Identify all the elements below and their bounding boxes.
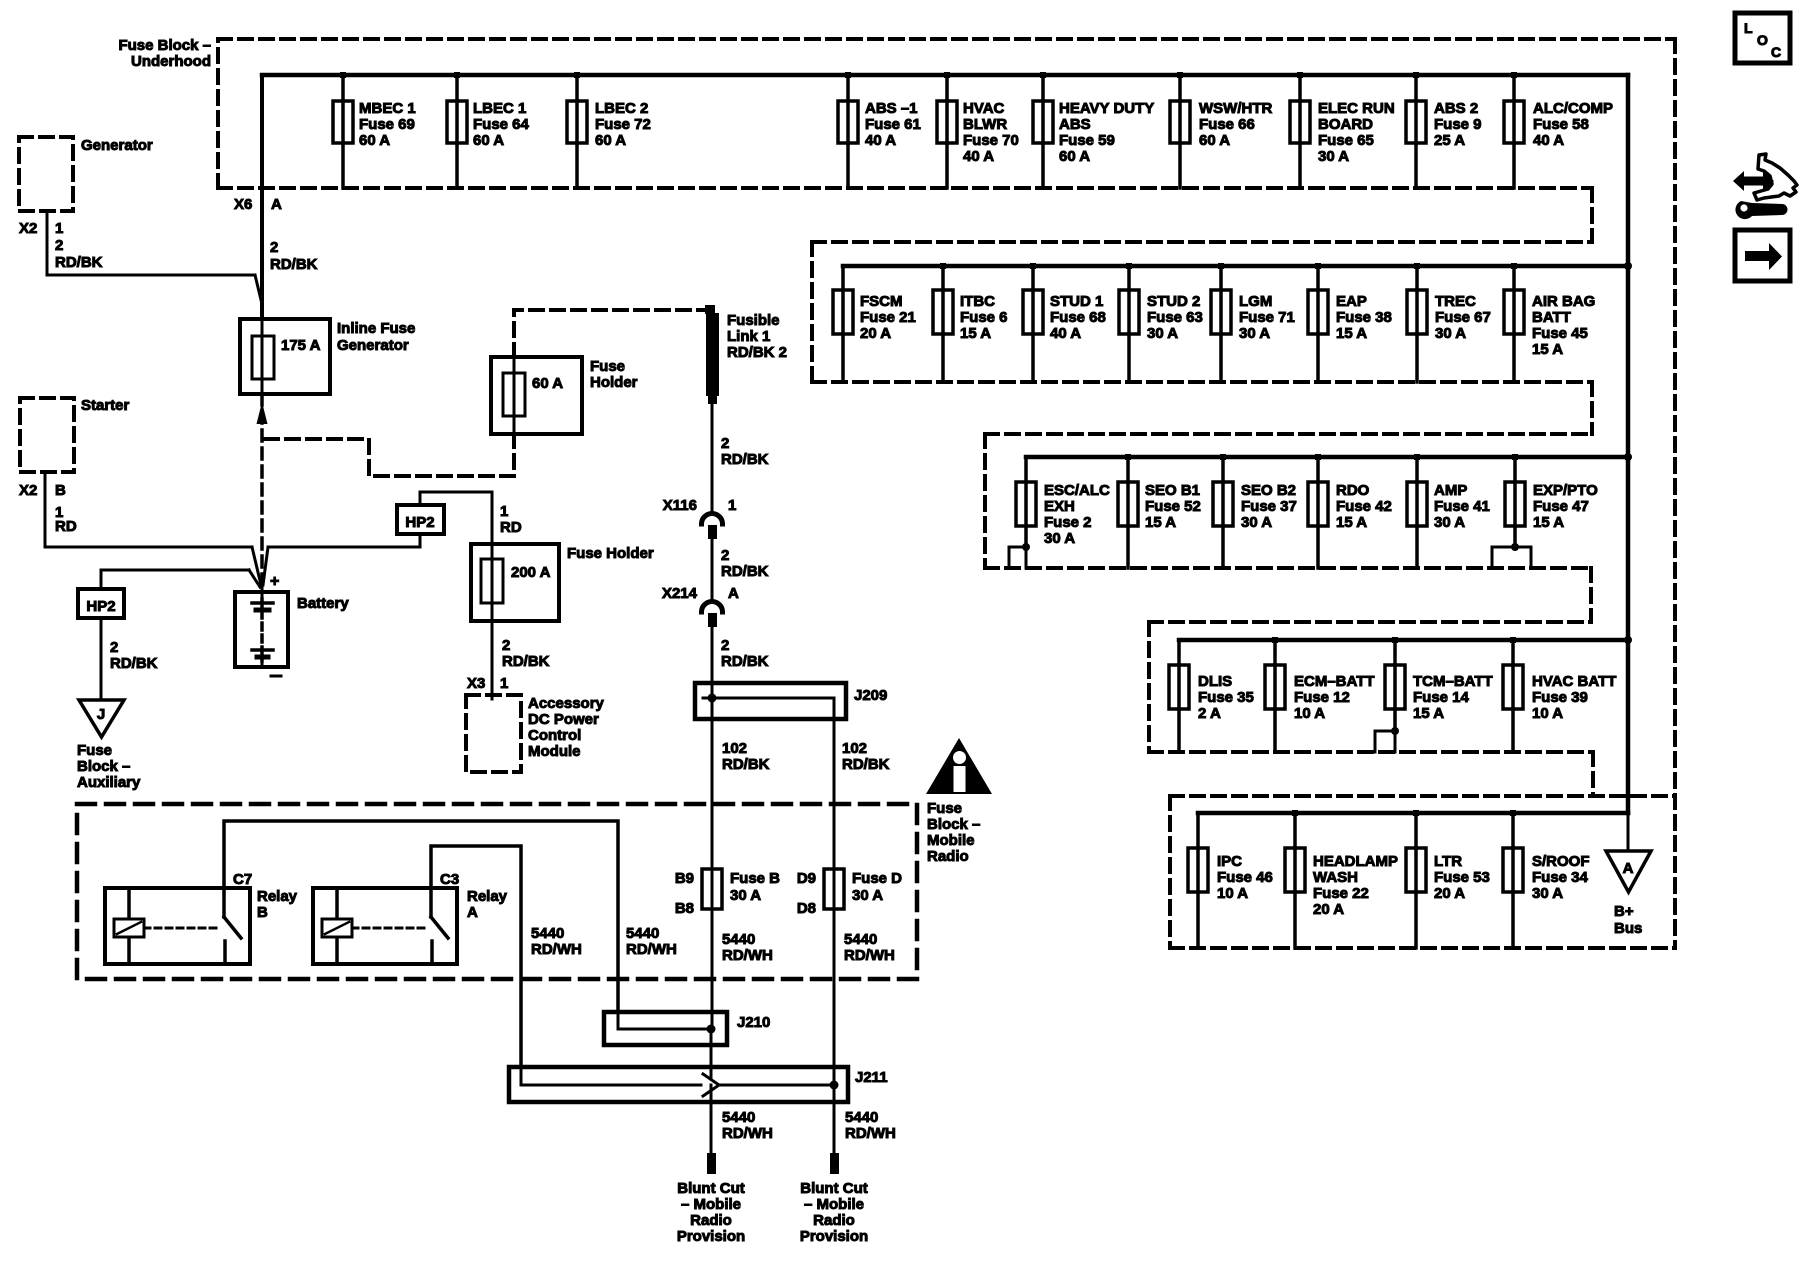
svg-text:J210: J210 bbox=[737, 1014, 770, 1031]
svg-text:Fuse D: Fuse D bbox=[852, 870, 902, 887]
svg-text:Mobile: Mobile bbox=[927, 832, 975, 849]
icon forward arrow box bbox=[1735, 230, 1790, 281]
svg-text:Radio: Radio bbox=[690, 1212, 732, 1229]
svg-text:20 A: 20 A bbox=[860, 325, 891, 342]
svg-text:Fuse 58: Fuse 58 bbox=[1533, 116, 1589, 133]
wire fuse D to J211 (5440 RD/WH) bbox=[833, 909, 836, 1085]
svg-text:30 A: 30 A bbox=[1147, 325, 1178, 342]
svg-text:BATT: BATT bbox=[1532, 309, 1571, 326]
svg-text:B9: B9 bbox=[675, 870, 694, 887]
svg-text:Link 1: Link 1 bbox=[727, 328, 770, 345]
svg-text:RD/WH: RD/WH bbox=[722, 1125, 773, 1142]
svg-text:15 A: 15 A bbox=[1336, 514, 1367, 531]
fuse HEAVY DUTY (ABS) bbox=[1033, 72, 1154, 188]
svg-text:Relay: Relay bbox=[467, 888, 508, 905]
wire label 5440 RD/WH (relay B output) bbox=[626, 925, 677, 958]
svg-text:LGM: LGM bbox=[1239, 293, 1272, 310]
svg-text:LBEC 1: LBEC 1 bbox=[473, 100, 526, 117]
svg-text:Fuse 63: Fuse 63 bbox=[1147, 309, 1203, 326]
svg-text:Module: Module bbox=[528, 743, 581, 760]
svg-text:MBEC 1: MBEC 1 bbox=[359, 100, 416, 117]
svg-text:Provision: Provision bbox=[800, 1228, 868, 1245]
label Inline Fuse Generator bbox=[337, 320, 415, 354]
wire relay A to J211 (5440 RD/WH) bbox=[431, 846, 521, 1067]
fuse ECM–BATT row4 bbox=[1265, 637, 1375, 752]
dashed wire inline fuse to battery with arrowhead bbox=[257, 394, 268, 661]
svg-text:O: O bbox=[1757, 32, 1768, 48]
svg-text:Fuse: Fuse bbox=[590, 358, 625, 375]
triangle connector J to fuse block auxiliary bbox=[79, 700, 124, 737]
svg-text:X2: X2 bbox=[19, 482, 37, 499]
svg-text:1: 1 bbox=[500, 503, 508, 520]
wire label 1 RD (starter) bbox=[55, 504, 77, 535]
svg-text:RD/BK: RD/BK bbox=[721, 451, 769, 468]
svg-text:EXH: EXH bbox=[1044, 498, 1075, 515]
svg-text:Fuse 47: Fuse 47 bbox=[1533, 498, 1589, 515]
starter dashed box bbox=[20, 398, 74, 472]
svg-text:Fuse 68: Fuse 68 bbox=[1050, 309, 1106, 326]
svg-text:ALC/COMP: ALC/COMP bbox=[1533, 100, 1613, 117]
svg-text:HP2: HP2 bbox=[86, 598, 115, 615]
wire HP2 right to battery bbox=[263, 534, 420, 585]
svg-text:AMP: AMP bbox=[1434, 482, 1467, 499]
fuse block underhood dashed boundary bbox=[218, 39, 1675, 948]
svg-text:Fuse 45: Fuse 45 bbox=[1532, 325, 1588, 342]
svg-text:Fuse 39: Fuse 39 bbox=[1532, 689, 1588, 706]
svg-text:ITBC: ITBC bbox=[960, 293, 995, 310]
junction jog below TCM-BATT fuse bbox=[1375, 727, 1399, 752]
svg-text:Fuse: Fuse bbox=[927, 800, 962, 817]
svg-text:Fuse 70: Fuse 70 bbox=[963, 132, 1019, 149]
wire fusible link to X116 bbox=[711, 404, 714, 512]
svg-text:RD/BK: RD/BK bbox=[55, 254, 103, 271]
wire J211 to left blunt cut (5440 RD/WH) bbox=[710, 1085, 713, 1153]
svg-text:Fuse 71: Fuse 71 bbox=[1239, 309, 1295, 326]
svg-text:WSW/HTR: WSW/HTR bbox=[1199, 100, 1272, 117]
svg-text:15 A: 15 A bbox=[960, 325, 991, 342]
node X2 pin 1 labels (generator) bbox=[19, 220, 63, 237]
wire relay B to J210 (5440 RD/WH) bbox=[224, 821, 618, 1012]
svg-text:Battery: Battery bbox=[297, 595, 349, 612]
svg-text:Blunt Cut: Blunt Cut bbox=[800, 1180, 867, 1197]
blunt cut terminal (right) bbox=[830, 1153, 839, 1174]
wire row2 bus bbox=[843, 264, 1628, 269]
svg-text:2: 2 bbox=[721, 435, 729, 452]
svg-text:Holder: Holder bbox=[590, 374, 638, 391]
fuse B 30 A (pins B9/B8) bbox=[675, 869, 780, 917]
warning triangle info symbol bbox=[926, 738, 992, 794]
wire X6-A feed (2 RD/BK) bbox=[260, 75, 264, 319]
svg-text:30 A: 30 A bbox=[1239, 325, 1270, 342]
fuse STUD 1 row2 bbox=[1023, 263, 1106, 382]
fusible link 1 (RD/BK 2) bbox=[705, 305, 719, 404]
svg-text:Fuse 53: Fuse 53 bbox=[1434, 869, 1490, 886]
fuse LGM row2 bbox=[1211, 263, 1295, 382]
fuse EAP row2 bbox=[1308, 263, 1392, 382]
svg-text:X214: X214 bbox=[662, 585, 698, 602]
svg-text:HEADLAMP: HEADLAMP bbox=[1313, 853, 1398, 870]
wire X3 to accessory module bbox=[491, 621, 494, 699]
svg-text:RD/WH: RD/WH bbox=[844, 947, 895, 964]
blunt cut terminal (left) bbox=[707, 1153, 716, 1174]
fuse LBEC 2 (Fuse 72) bbox=[567, 72, 651, 188]
wire label 5440 RD/WH (fuse D output) bbox=[844, 931, 895, 964]
connector X116 pin 1 bbox=[663, 497, 737, 539]
svg-text:Fusible: Fusible bbox=[727, 312, 780, 329]
label Relay B bbox=[257, 888, 298, 921]
wire starter X2-B to battery bbox=[45, 472, 261, 585]
svg-text:DC Power: DC Power bbox=[528, 711, 599, 728]
label Starter bbox=[81, 397, 130, 414]
wire label 2 RD/BK (between X116 and X214) bbox=[721, 547, 769, 580]
svg-text:– Mobile: – Mobile bbox=[681, 1196, 741, 1213]
svg-text:J: J bbox=[97, 706, 105, 723]
fuse EXP/PTO row3 bbox=[1505, 454, 1598, 547]
icon LOC box bbox=[1735, 13, 1790, 63]
junction jog below EXP/PTO fuse bbox=[1492, 543, 1531, 568]
svg-text:X2: X2 bbox=[19, 220, 37, 237]
svg-text:Fuse B: Fuse B bbox=[730, 870, 780, 887]
svg-text:30 A: 30 A bbox=[1318, 148, 1349, 165]
dashed wire 60A holder to main feed bbox=[264, 434, 514, 476]
svg-text:200 A: 200 A bbox=[511, 564, 551, 581]
svg-text:X116: X116 bbox=[663, 497, 697, 514]
svg-text:C3: C3 bbox=[440, 871, 459, 888]
svg-text:Bus: Bus bbox=[1614, 920, 1642, 937]
wire label 5440 RD/WH (left blunt cut) bbox=[722, 1109, 773, 1142]
fuse ABS –1 (Fuse 61) bbox=[838, 72, 921, 188]
svg-text:C: C bbox=[1771, 44, 1781, 60]
svg-text:5440: 5440 bbox=[844, 931, 877, 948]
svg-text:A: A bbox=[271, 196, 282, 213]
wire row1 bus bbox=[262, 73, 1628, 78]
svg-text:Fuse 64: Fuse 64 bbox=[473, 116, 530, 133]
fuse AIR BAG row2 bbox=[1504, 263, 1595, 382]
connector HP2 (left) bbox=[78, 589, 124, 618]
svg-text:40 A: 40 A bbox=[865, 132, 896, 149]
svg-text:AIR BAG: AIR BAG bbox=[1532, 293, 1595, 310]
wire HP2 left to fuse block auxiliary bbox=[100, 618, 103, 700]
svg-text:Fuse 41: Fuse 41 bbox=[1434, 498, 1490, 515]
svg-text:10 A: 10 A bbox=[1294, 705, 1325, 722]
svg-text:Radio: Radio bbox=[813, 1212, 855, 1229]
wire HP2 left to battery bbox=[101, 570, 260, 589]
svg-text:SEO B1: SEO B1 bbox=[1145, 482, 1200, 499]
svg-text:Fuse 59: Fuse 59 bbox=[1059, 132, 1115, 149]
svg-text:L: L bbox=[1744, 20, 1753, 36]
svg-text:RD/BK: RD/BK bbox=[721, 563, 769, 580]
svg-text:RD/BK: RD/BK bbox=[270, 256, 318, 273]
svg-text:SEO B2: SEO B2 bbox=[1241, 482, 1296, 499]
svg-text:HVAC: HVAC bbox=[963, 100, 1005, 117]
svg-text:2: 2 bbox=[502, 637, 510, 654]
svg-text:60 A: 60 A bbox=[532, 375, 563, 392]
svg-text:RD: RD bbox=[500, 519, 522, 536]
fuse LBEC 1 (Fuse 64) bbox=[447, 72, 530, 188]
svg-text:5440: 5440 bbox=[531, 925, 564, 942]
svg-text:5440: 5440 bbox=[722, 1109, 755, 1126]
svg-text:RD: RD bbox=[55, 518, 77, 535]
wire X214 to J209 bbox=[711, 627, 714, 683]
wire row4 bus bbox=[1179, 638, 1628, 643]
fuse FSCM row2 bbox=[833, 266, 916, 382]
label Fuse Block - Mobile Radio bbox=[927, 800, 980, 865]
wire label 5440 RD/WH (fuse B output) bbox=[722, 931, 773, 964]
svg-text:A: A bbox=[467, 904, 478, 921]
fuse MBEC 1 (Fuse 69) bbox=[333, 72, 416, 188]
svg-text:X3: X3 bbox=[467, 675, 485, 692]
fuse RDO row3 bbox=[1308, 454, 1392, 568]
svg-text:ABS: ABS bbox=[1059, 116, 1091, 133]
wire row3 bus bbox=[1026, 455, 1628, 460]
svg-text:102: 102 bbox=[722, 740, 747, 757]
svg-text:RD/BK: RD/BK bbox=[502, 653, 550, 670]
node X3 pin 1 labels bbox=[467, 675, 508, 692]
battery bbox=[235, 573, 288, 676]
svg-text:B: B bbox=[55, 482, 66, 499]
svg-text:1: 1 bbox=[55, 220, 63, 237]
svg-text:Fuse 61: Fuse 61 bbox=[865, 116, 921, 133]
fuse IPC row5 bbox=[1188, 813, 1273, 948]
fuse LTR row5 bbox=[1406, 810, 1490, 948]
svg-text:2: 2 bbox=[110, 639, 118, 656]
fuse ALC/COMP (Fuse 58) bbox=[1504, 72, 1613, 188]
svg-text:ABS –1: ABS –1 bbox=[865, 100, 918, 117]
svg-text:X6: X6 bbox=[234, 196, 252, 213]
svg-text:RD/BK 2: RD/BK 2 bbox=[727, 344, 787, 361]
wire label 2 RD/BK (above J209) bbox=[721, 637, 769, 670]
svg-text:RD/BK: RD/BK bbox=[842, 756, 890, 773]
svg-text:Fuse Holder: Fuse Holder bbox=[567, 545, 654, 562]
wire label 102 RD/BK (left) bbox=[722, 740, 770, 773]
svg-text:Fuse 6: Fuse 6 bbox=[960, 309, 1008, 326]
wire J209 to fuse D (102 RD/BK) bbox=[833, 719, 836, 869]
svg-text:15 A: 15 A bbox=[1413, 705, 1444, 722]
svg-text:30 A: 30 A bbox=[1044, 530, 1075, 547]
svg-text:Generator: Generator bbox=[81, 137, 153, 154]
svg-text:ELEC RUN: ELEC RUN bbox=[1318, 100, 1395, 117]
svg-text:2: 2 bbox=[721, 547, 729, 564]
svg-text:ESC/ALC: ESC/ALC bbox=[1044, 482, 1110, 499]
svg-text:Fuse 37: Fuse 37 bbox=[1241, 498, 1297, 515]
svg-text:RD/WH: RD/WH bbox=[722, 947, 773, 964]
wire generator X2-1 to inline fuse bbox=[47, 211, 262, 304]
fuse SEO B1 row3 bbox=[1118, 454, 1201, 568]
svg-text:175 A: 175 A bbox=[281, 337, 321, 354]
svg-text:C7: C7 bbox=[233, 871, 252, 888]
svg-text:A: A bbox=[1623, 860, 1634, 877]
svg-text:BOARD: BOARD bbox=[1318, 116, 1373, 133]
svg-text:HVAC BATT: HVAC BATT bbox=[1532, 673, 1616, 690]
svg-text:STUD 1: STUD 1 bbox=[1050, 293, 1103, 310]
svg-text:10 A: 10 A bbox=[1217, 885, 1248, 902]
svg-text:+: + bbox=[270, 573, 279, 590]
svg-text:60 A: 60 A bbox=[359, 132, 390, 149]
wire label 5440 RD/WH (right blunt cut) bbox=[845, 1109, 896, 1142]
fuse STUD 2 row2 bbox=[1119, 263, 1203, 382]
node X6 pin A labels bbox=[234, 196, 282, 213]
svg-text:B: B bbox=[257, 904, 268, 921]
svg-text:Fuse 9: Fuse 9 bbox=[1434, 116, 1482, 133]
svg-text:5440: 5440 bbox=[626, 925, 659, 942]
svg-text:Fuse 67: Fuse 67 bbox=[1435, 309, 1491, 326]
svg-text:15 A: 15 A bbox=[1336, 325, 1367, 342]
svg-text:LBEC 2: LBEC 2 bbox=[595, 100, 648, 117]
svg-text:2: 2 bbox=[55, 237, 63, 254]
connector HP2 (right) bbox=[397, 505, 444, 534]
label Blunt Cut - Mobile Radio Provision (right) bbox=[800, 1180, 868, 1245]
svg-text:Fuse 21: Fuse 21 bbox=[860, 309, 916, 326]
svg-text:30 A: 30 A bbox=[730, 887, 761, 904]
svg-text:2: 2 bbox=[270, 239, 278, 256]
fuse TCM–BATT row4 bbox=[1385, 637, 1493, 731]
svg-text:D9: D9 bbox=[797, 870, 816, 887]
fuse holder 60 A bbox=[491, 357, 582, 434]
svg-text:Fuse 35: Fuse 35 bbox=[1198, 689, 1254, 706]
fuse HVAC BATT row4 bbox=[1503, 637, 1616, 752]
svg-text:Fuse 22: Fuse 22 bbox=[1313, 885, 1369, 902]
wire row5 bus bbox=[1198, 811, 1628, 816]
fuse SEO B2 row3 bbox=[1213, 454, 1297, 568]
wire battery positive stub bbox=[261, 585, 264, 592]
svg-text:Radio: Radio bbox=[927, 848, 969, 865]
svg-text:15 A: 15 A bbox=[1533, 514, 1564, 531]
label Fuse Block - Auxiliary bbox=[77, 742, 141, 791]
svg-text:TREC: TREC bbox=[1435, 293, 1476, 310]
svg-text:FSCM: FSCM bbox=[860, 293, 903, 310]
svg-text:J209: J209 bbox=[854, 687, 887, 704]
svg-text:Fuse 42: Fuse 42 bbox=[1336, 498, 1392, 515]
fuse S/ROOF row5 bbox=[1503, 810, 1590, 948]
B+ Bus triangle connector A bbox=[1606, 813, 1651, 937]
label Relay A bbox=[467, 888, 508, 921]
svg-text:IPC: IPC bbox=[1217, 853, 1242, 870]
accessory DC power control module dashed box bbox=[466, 695, 521, 772]
svg-text:RDO: RDO bbox=[1336, 482, 1370, 499]
wire label 2 RD/BK (above X116) bbox=[721, 435, 769, 468]
fuse holder 200 A bbox=[471, 544, 559, 621]
svg-text:Fuse: Fuse bbox=[77, 742, 112, 759]
svg-text:Fuse 69: Fuse 69 bbox=[359, 116, 415, 133]
svg-text:5440: 5440 bbox=[722, 931, 755, 948]
wire label 2 RD/BK (generator) bbox=[55, 237, 103, 271]
svg-text:5440: 5440 bbox=[845, 1109, 878, 1126]
svg-text:60 A: 60 A bbox=[1059, 148, 1090, 165]
fuse ESC/ALC row3 bbox=[1016, 457, 1110, 547]
fuse AMP row3 bbox=[1407, 454, 1490, 568]
fuse WSW/HTR (Fuse 66) bbox=[1170, 72, 1272, 188]
svg-text:STUD 2: STUD 2 bbox=[1147, 293, 1200, 310]
svg-text:Fuse 65: Fuse 65 bbox=[1318, 132, 1374, 149]
svg-text:Fuse 52: Fuse 52 bbox=[1145, 498, 1201, 515]
connector X214 pin A bbox=[662, 585, 739, 627]
wire J211 to right blunt cut (5440 RD/WH) bbox=[833, 1085, 836, 1153]
svg-text:15 A: 15 A bbox=[1145, 514, 1176, 531]
svg-text:EXP/PTO: EXP/PTO bbox=[1533, 482, 1598, 499]
svg-text:HEAVY DUTY: HEAVY DUTY bbox=[1059, 100, 1154, 117]
label Blunt Cut - Mobile Radio Provision (left) bbox=[677, 1180, 745, 1245]
svg-text:DLIS: DLIS bbox=[1198, 673, 1232, 690]
svg-text:Inline Fuse: Inline Fuse bbox=[337, 320, 415, 337]
wire J209 to fuse B (102 RD/BK) bbox=[711, 698, 714, 869]
svg-text:Fuse 12: Fuse 12 bbox=[1294, 689, 1350, 706]
icon diagnostic tools bbox=[1733, 154, 1797, 219]
svg-text:RD/BK: RD/BK bbox=[721, 653, 769, 670]
svg-text:60 A: 60 A bbox=[1199, 132, 1230, 149]
svg-text:Fuse 14: Fuse 14 bbox=[1413, 689, 1470, 706]
svg-text:1: 1 bbox=[728, 497, 736, 514]
svg-text:Generator: Generator bbox=[337, 337, 409, 354]
svg-text:Fuse Block –: Fuse Block – bbox=[118, 37, 211, 54]
svg-text:Auxiliary: Auxiliary bbox=[77, 774, 141, 791]
svg-text:102: 102 bbox=[842, 740, 867, 757]
splice pack J209 bbox=[695, 683, 887, 719]
svg-text:D8: D8 bbox=[797, 900, 816, 917]
svg-text:BLWR: BLWR bbox=[963, 116, 1007, 133]
wire label 102 RD/BK (right) bbox=[842, 740, 890, 773]
svg-text:40 A: 40 A bbox=[1050, 325, 1081, 342]
svg-text:Starter: Starter bbox=[81, 397, 130, 414]
relay B (C7) bbox=[105, 871, 252, 964]
svg-text:Fuse 46: Fuse 46 bbox=[1217, 869, 1273, 886]
wire fuse B to J210 (5440 RD/WH) bbox=[711, 909, 714, 1029]
svg-text:60 A: 60 A bbox=[595, 132, 626, 149]
wire label 2 RD/BK (X3 feed) bbox=[502, 637, 550, 670]
label Fuse Holder (60 A) bbox=[590, 358, 638, 391]
wire right backbone bbox=[1624, 75, 1632, 813]
svg-text:1: 1 bbox=[500, 675, 508, 692]
svg-text:30 A: 30 A bbox=[1434, 514, 1465, 531]
wire label 2 RD/BK (X6 feed) bbox=[270, 239, 318, 273]
fuse block mobile radio dashed box bbox=[77, 804, 917, 979]
label Generator bbox=[81, 137, 153, 154]
fuse D 30 A (pins D9/D8) bbox=[797, 869, 902, 917]
svg-text:Fuse 38: Fuse 38 bbox=[1336, 309, 1392, 326]
svg-text:– Mobile: – Mobile bbox=[804, 1196, 864, 1213]
svg-text:Relay: Relay bbox=[257, 888, 298, 905]
junction jog below ESC/ALC EXH fuse bbox=[1009, 543, 1030, 568]
svg-text:40 A: 40 A bbox=[1533, 132, 1564, 149]
fuse DLIS row4 bbox=[1169, 640, 1254, 752]
svg-text:Underhood: Underhood bbox=[131, 53, 211, 70]
svg-text:30 A: 30 A bbox=[1532, 885, 1563, 902]
svg-text:Block –: Block – bbox=[927, 816, 980, 833]
svg-text:20 A: 20 A bbox=[1434, 885, 1465, 902]
svg-text:WASH: WASH bbox=[1313, 869, 1358, 886]
svg-text:15 A: 15 A bbox=[1532, 341, 1563, 358]
fuse HVAC (BLWR) bbox=[937, 72, 1019, 188]
splice pack J210 bbox=[604, 1012, 770, 1045]
fuse ELEC RUN (BOARD) bbox=[1290, 72, 1395, 188]
svg-text:B8: B8 bbox=[675, 900, 694, 917]
svg-text:Fuse 72: Fuse 72 bbox=[595, 116, 651, 133]
generator dashed box bbox=[19, 137, 73, 211]
svg-text:RD/BK: RD/BK bbox=[110, 655, 158, 672]
svg-text:RD/WH: RD/WH bbox=[845, 1125, 896, 1142]
svg-text:Accessory: Accessory bbox=[528, 695, 605, 712]
fuse TREC row2 bbox=[1407, 263, 1491, 382]
fuse ABS 2 (Fuse 9) bbox=[1406, 72, 1482, 188]
svg-text:Control: Control bbox=[528, 727, 581, 744]
svg-text:J211: J211 bbox=[855, 1069, 888, 1086]
svg-text:30 A: 30 A bbox=[852, 887, 883, 904]
dashed wire 60A holder to fusible link bbox=[514, 310, 705, 357]
svg-text:2 A: 2 A bbox=[1198, 705, 1221, 722]
svg-text:HP2: HP2 bbox=[405, 514, 434, 531]
svg-text:EAP: EAP bbox=[1336, 293, 1367, 310]
svg-text:A: A bbox=[728, 585, 739, 602]
wire X116 to X214 bbox=[711, 539, 714, 600]
